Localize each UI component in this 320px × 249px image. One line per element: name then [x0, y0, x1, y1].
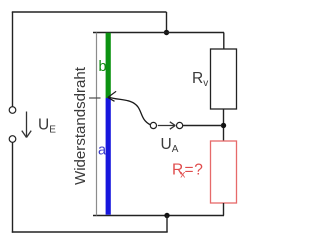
node A (junction dot top) — [164, 30, 169, 35]
terminal: UE bottom — [9, 136, 16, 143]
wiper lead curve — [109, 97, 151, 125]
wire: Rv bottom lead to node B — [223, 109, 225, 141]
svg-text:a: a — [98, 143, 107, 159]
svg-text:Widerstandsdraht: Widerstandsdraht — [72, 66, 89, 185]
node C (junction dot bottom) — [164, 213, 169, 218]
wire: drop from node C to bottom wire — [166, 216, 168, 233]
wiper arrow head — [108, 91, 116, 101]
resistance wire lower part a (blue bar) — [106, 98, 111, 215]
wire: drop from top wire to node A — [166, 12, 168, 33]
svg-text:UA: UA — [161, 136, 179, 155]
terminal: UA left — [150, 122, 156, 128]
resistance wire upper part b (green bar) — [106, 33, 111, 98]
wire: Rx bottom lead — [223, 203, 225, 216]
wire: lower bridge horizontal — [93, 215, 224, 217]
resistor Rv — [211, 49, 237, 109]
terminal: UE top — [9, 107, 16, 114]
wire: bottom horizontal — [12, 231, 168, 233]
node B (junction dot middle right) — [221, 123, 226, 128]
arrow UE (voltage arrow down) — [22, 112, 31, 138]
wire: Rv top lead — [223, 33, 225, 50]
wire: UA right terminal to node B — [183, 125, 222, 127]
arrow UA (voltage arrow right) — [158, 122, 176, 129]
wire: left vertical upper — [12, 12, 14, 107]
svg-text:UE: UE — [38, 117, 56, 136]
ruler line (scale beside wire) — [96, 33, 98, 216]
terminal: UA right — [177, 122, 183, 128]
ruler tick at wiper height — [89, 97, 101, 99]
svg-text:b: b — [99, 59, 107, 75]
wire: upper bridge horizontal — [93, 32, 224, 34]
svg-text:Rv: Rv — [192, 70, 208, 89]
wire: left vertical lower — [12, 142, 14, 232]
wire: top horizontal — [12, 11, 167, 13]
resistor Rx (unknown, red) — [211, 141, 237, 203]
svg-text:Rx=?: Rx=? — [172, 162, 203, 181]
